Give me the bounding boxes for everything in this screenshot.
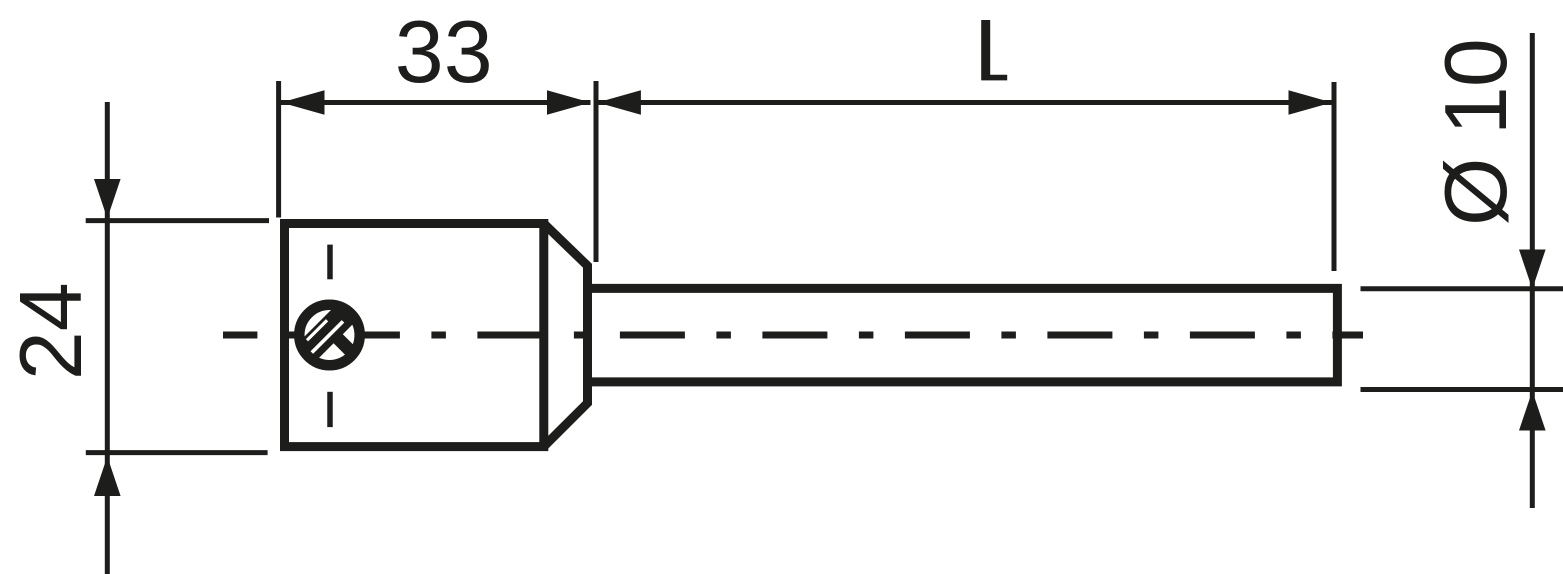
svg-text:33: 33 [395, 2, 493, 101]
svg-text:24: 24 [1, 282, 100, 380]
svg-text:Ø 10: Ø 10 [1426, 39, 1525, 226]
